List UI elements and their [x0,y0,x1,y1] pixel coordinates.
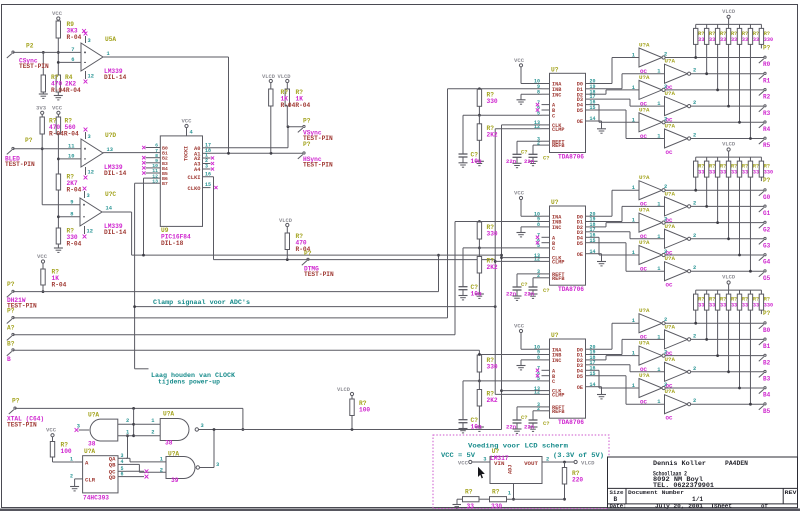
svg-text:D5: D5 [577,374,583,380]
svg-text:10: 10 [152,163,158,169]
svg-text:B1: B1 [162,151,168,157]
svg-text:6: 6 [155,143,158,149]
svg-text:330: 330 [487,364,498,371]
svg-text:2: 2 [126,418,129,424]
svg-text:15: 15 [205,182,211,188]
svg-text:B2: B2 [763,359,771,366]
svg-text:10u: 10u [471,158,482,165]
svg-text:U?A: U?A [665,90,676,97]
svg-text:QD: QD [109,474,116,481]
svg-text:Voeding voor LCD scherm: Voeding voor LCD scherm [468,443,568,450]
svg-text:P2: P2 [26,43,34,50]
svg-text:CLR: CLR [85,476,96,483]
svg-text:9: 9 [70,200,73,206]
svg-text:3: 3 [121,453,124,459]
svg-text:330: 330 [764,37,773,43]
svg-text:U?: U? [551,199,559,206]
svg-text:C: C [552,379,555,385]
svg-text:2: 2 [664,184,667,190]
svg-text:DIL-14: DIL-14 [104,170,127,177]
svg-text:2: 2 [693,398,696,404]
svg-text:R4: R4 [763,126,771,133]
svg-text:2: 2 [160,468,163,474]
svg-text:1: 1 [657,367,660,373]
svg-text:Date:: Date: [610,502,627,509]
svg-text:220: 220 [572,477,583,484]
svg-text:TEST-PIN: TEST-PIN [7,421,37,428]
svg-text:14: 14 [106,206,113,212]
svg-text:U?A: U?A [168,450,179,457]
svg-text:U?C: U?C [105,191,116,198]
svg-text:6: 6 [71,57,74,63]
svg-text:U?A: U?A [639,174,650,181]
svg-text:6: 6 [121,471,124,477]
svg-text:P?: P? [763,45,771,52]
svg-text:VLCD: VLCD [279,218,293,224]
svg-text:CLMP: CLMP [552,393,564,399]
svg-text:330: 330 [487,231,498,238]
svg-text:July 20, 2001: July 20, 2001 [655,502,704,509]
svg-text:1: 1 [657,201,660,207]
svg-text:TEST-PIN: TEST-PIN [303,161,333,168]
svg-text:1: 1 [632,351,635,357]
svg-text:R?: R? [465,488,473,495]
svg-text:1: 1 [657,234,660,240]
svg-text:3: 3 [77,424,80,430]
svg-text:VLCD: VLCD [337,387,351,393]
svg-text:R1: R1 [763,77,771,84]
svg-text:P?: P? [303,118,311,125]
svg-text:100: 100 [359,407,370,414]
svg-text:22n: 22n [506,291,517,298]
svg-text:2: 2 [151,430,154,436]
svg-text:R3: R3 [763,110,771,117]
svg-text:C?: C? [543,421,549,427]
svg-text:2: 2 [664,217,667,223]
svg-text:B0: B0 [162,146,168,152]
svg-text:CLKO: CLKO [188,186,202,192]
svg-text:R-04R-04: R-04R-04 [281,102,311,109]
svg-text:B6: B6 [162,176,168,182]
svg-text:3: 3 [216,462,219,468]
svg-text:DIL-14: DIL-14 [104,229,127,236]
svg-text:P?: P? [7,281,15,288]
svg-text:1: 1 [657,69,660,75]
svg-text:U?A: U?A [639,74,650,81]
svg-text:VLCD: VLCD [722,142,736,148]
svg-text:100: 100 [61,448,72,455]
svg-text:2K2: 2K2 [487,264,498,271]
svg-text:VCC: VCC [52,10,63,17]
svg-text:R?: R? [492,488,500,495]
svg-text:C?: C? [521,282,527,288]
svg-text:2: 2 [664,317,667,323]
svg-text:1: 1 [107,51,110,57]
svg-text:U?A: U?A [665,255,676,262]
svg-text:OE: OE [577,385,583,391]
svg-text:VLCD: VLCD [278,74,292,80]
svg-text:U?A: U?A [88,412,99,419]
svg-text:U?A: U?A [163,411,174,418]
svg-text:Document Number: Document Number [628,489,685,496]
svg-text:1: 1 [151,418,154,424]
svg-text:PA4DEN: PA4DEN [725,460,748,467]
svg-text:22n: 22n [524,158,535,165]
svg-text:VIN: VIN [494,460,505,467]
svg-text:7: 7 [71,47,74,53]
svg-text:C?: C? [521,415,527,421]
svg-text:TDA8706: TDA8706 [558,286,584,293]
svg-text:2: 2 [693,200,696,206]
svg-text:38: 38 [165,440,173,447]
svg-text:VLCD: VLCD [722,275,736,281]
svg-text:U?A: U?A [84,448,95,455]
svg-text:INC: INC [552,358,561,364]
svg-text:R-04R-04: R-04R-04 [49,131,79,138]
svg-text:G2: G2 [763,226,771,233]
svg-text:12: 12 [88,170,94,176]
svg-text:2: 2 [664,84,667,90]
svg-text:REV: REV [785,489,798,496]
svg-text:B?: B? [7,340,15,347]
svg-text:B7: B7 [162,181,168,187]
svg-text:12: 12 [88,74,94,80]
svg-text:VCC: VCC [514,57,525,64]
svg-text:2: 2 [693,68,696,74]
svg-text:2: 2 [693,133,696,139]
svg-text:G1: G1 [763,210,771,217]
svg-text:G3: G3 [763,243,771,250]
svg-text:OC: OC [640,399,647,406]
svg-text:22n: 22n [524,424,535,431]
svg-text:330: 330 [491,503,502,510]
svg-text:VCC: VCC [46,427,57,434]
svg-text:INC: INC [552,225,561,231]
svg-text:2: 2 [693,333,696,339]
svg-text:VCC = 5V: VCC = 5V [441,452,475,459]
svg-text:B5: B5 [763,408,771,415]
svg-text:(3.3V of 5V): (3.3V of 5V) [553,452,604,459]
svg-text:REFB: REFB [552,143,564,149]
svg-text:TDA8706: TDA8706 [558,419,584,426]
svg-text:U?A: U?A [665,58,676,65]
svg-text:3: 3 [88,38,91,44]
svg-text:1: 1 [632,117,635,123]
svg-text:8: 8 [155,153,158,159]
svg-text:C?: C? [543,288,549,294]
svg-text:10u: 10u [471,291,482,298]
svg-text:22n: 22n [506,424,517,431]
svg-text:REFB: REFB [552,409,564,415]
svg-text:1: 1 [657,399,660,405]
svg-text:33: 33 [467,503,475,510]
svg-text:1: 1 [632,53,635,59]
svg-text:22n: 22n [524,291,535,298]
svg-text:R0: R0 [763,61,771,68]
svg-text:330: 330 [764,170,773,176]
svg-text:7: 7 [155,148,158,154]
svg-text:Sheet: Sheet [714,502,732,509]
svg-text:3: 3 [88,134,91,140]
svg-text:R-04: R-04 [67,241,82,248]
svg-text:P?: P? [7,308,15,315]
svg-text:DIL-14: DIL-14 [104,74,127,81]
svg-text:B4: B4 [162,166,168,172]
svg-text:T0CKI: T0CKI [184,146,190,161]
svg-text:B1: B1 [763,343,771,350]
svg-text:P?: P? [763,177,771,184]
svg-text:C?: C? [521,149,527,155]
svg-text:U?A: U?A [639,106,650,113]
svg-text:3: 3 [205,164,208,170]
svg-text:VLCD: VLCD [581,460,595,467]
svg-text:ADJ: ADJ [508,465,514,474]
svg-text:D5: D5 [577,241,583,247]
svg-text:U?A: U?A [665,323,676,330]
svg-text:3: 3 [87,193,90,199]
svg-text:R-04: R-04 [67,187,82,194]
svg-text:2: 2 [664,52,667,58]
svg-text:Clamp signaal voor ADC's: Clamp signaal voor ADC's [153,299,250,306]
svg-text:Size: Size [610,489,625,496]
svg-text:P?: P? [25,137,33,144]
svg-text:C?: C? [543,155,549,161]
svg-text:2: 2 [664,382,667,388]
svg-text:VCC: VCC [52,105,63,112]
svg-text:R2: R2 [763,94,771,101]
svg-text:B: B [7,356,11,363]
svg-text:U?: U? [551,66,559,73]
svg-text:1: 1 [632,383,635,389]
svg-text:U?A: U?A [665,123,676,130]
svg-text:OC: OC [666,415,673,422]
svg-text:3V3: 3V3 [36,105,47,112]
svg-text:P?: P? [12,398,20,405]
svg-text:U?A: U?A [665,356,676,363]
svg-text:11: 11 [152,168,158,174]
svg-text:VLCD: VLCD [262,74,276,80]
svg-text:B3: B3 [763,376,771,383]
svg-text:INC: INC [552,92,561,98]
svg-text:B4: B4 [763,392,771,399]
svg-text:R5: R5 [763,142,771,149]
svg-text:330: 330 [487,98,498,105]
svg-text:P?: P? [763,310,771,317]
svg-text:A?: A? [7,325,15,332]
svg-text:3: 3 [201,423,204,429]
svg-text:OC: OC [666,149,673,156]
svg-text:TEST-PIN: TEST-PIN [5,161,35,168]
svg-text:VCC: VCC [181,118,192,125]
svg-text:U?A: U?A [639,307,650,314]
svg-text:U?A: U?A [639,42,650,49]
svg-text:U?A: U?A [639,340,650,347]
svg-text:8: 8 [70,212,73,218]
svg-text:TDA8706: TDA8706 [558,153,584,160]
svg-text:OE: OE [577,119,583,125]
svg-text:1: 1 [632,85,635,91]
svg-text:74HC393: 74HC393 [83,495,109,502]
svg-text:2: 2 [693,233,696,239]
svg-text:VOUT: VOUT [524,460,538,467]
svg-text:tijdens power-up: tijdens power-up [158,379,220,386]
svg-text:U?D: U?D [105,132,116,139]
svg-text:B3: B3 [162,161,168,167]
svg-text:38: 38 [88,441,96,448]
svg-text:G0: G0 [763,194,771,201]
svg-text:2: 2 [664,249,667,255]
svg-text:2K2: 2K2 [487,397,498,404]
svg-text:VLCD: VLCD [722,9,736,15]
svg-text:4: 4 [121,459,124,465]
svg-text:2: 2 [70,474,73,480]
svg-text:OC: OC [640,133,647,140]
svg-text:of: of [761,502,768,509]
svg-text:Dennis Koller: Dennis Koller [653,460,706,467]
svg-text:10: 10 [68,154,74,160]
svg-text:G5: G5 [763,275,771,282]
svg-text:22n: 22n [506,158,517,165]
svg-text:B5: B5 [162,171,168,177]
svg-text:1: 1 [508,491,511,497]
svg-text:OE: OE [577,252,583,258]
svg-text:2: 2 [664,350,667,356]
svg-text:OC: OC [640,266,647,273]
svg-text:B0: B0 [763,327,771,334]
svg-text:1: 1 [632,318,635,324]
svg-text:9: 9 [155,158,158,164]
svg-text:2: 2 [693,100,696,106]
svg-text:P?: P? [304,250,312,257]
svg-text:1: 1 [657,134,660,140]
svg-text:U?A: U?A [665,388,676,395]
svg-text:12: 12 [87,229,93,235]
svg-text:C: C [552,113,555,119]
svg-text:1: 1 [657,334,660,340]
svg-text:U5A: U5A [105,36,116,43]
svg-text:1: 1 [632,218,635,224]
svg-text:1: 1 [657,101,660,107]
svg-text:A4: A4 [194,167,201,173]
svg-text:R-04: R-04 [52,282,67,289]
svg-text:1: 1 [632,250,635,256]
svg-text:REFB: REFB [552,276,564,282]
svg-text:R-04R-04: R-04R-04 [51,87,81,94]
svg-text:2: 2 [693,265,696,271]
svg-text:R-04: R-04 [67,34,82,41]
svg-text:VCC: VCC [514,190,525,197]
svg-text:13: 13 [152,178,158,184]
svg-text:OC: OC [666,282,673,289]
svg-text:2: 2 [664,116,667,122]
svg-text:C: C [552,246,555,252]
svg-text:1: 1 [70,457,73,463]
svg-text:2: 2 [693,366,696,372]
svg-text:1: 1 [632,185,635,191]
svg-text:1: 1 [657,266,660,272]
svg-text:VCC: VCC [458,460,469,467]
svg-text:U?: U? [551,332,559,339]
svg-text:16: 16 [205,171,211,177]
svg-text:CLMP: CLMP [552,260,564,266]
svg-text:39: 39 [171,477,179,484]
svg-text:DIL-18: DIL-18 [161,240,184,247]
svg-text:U?A: U?A [639,372,650,379]
svg-text:2K2: 2K2 [487,131,498,138]
svg-text:330: 330 [764,303,773,309]
svg-text:12: 12 [152,173,158,179]
svg-text:TEST-PIN: TEST-PIN [19,63,49,70]
svg-text:1: 1 [126,430,129,436]
svg-text:CLKI: CLKI [188,175,201,181]
svg-text:U?A: U?A [665,223,676,230]
svg-text:CLMP: CLMP [552,127,564,133]
svg-text:1: 1 [160,456,163,462]
svg-text:G4: G4 [763,259,771,266]
svg-text:VCC: VCC [514,323,525,330]
svg-text:U?A: U?A [639,207,650,214]
svg-text:B2: B2 [162,156,168,162]
svg-text:VCC: VCC [37,253,48,260]
svg-text:U?A: U?A [639,239,650,246]
svg-text:P?: P? [303,141,311,148]
svg-text:11: 11 [68,144,74,150]
svg-text:TEST-PIN: TEST-PIN [304,271,334,278]
svg-text:U?A: U?A [665,190,676,197]
svg-text:D5: D5 [577,108,583,114]
